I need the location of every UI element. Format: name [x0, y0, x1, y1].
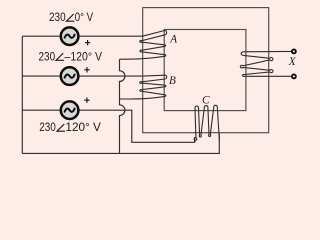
terminal X bottom — [292, 74, 296, 78]
svg-text:–120° V: –120° V — [65, 49, 103, 63]
ac source V3 — [61, 101, 79, 119]
wire phase 1 — [22, 35, 142, 37]
transformer core outer — [143, 8, 269, 133]
polarity plus V3 — [84, 98, 89, 103]
terminal X top — [292, 49, 296, 53]
winding C — [194, 105, 219, 142]
polarity plus V1 — [85, 40, 90, 45]
svg-text:X: X — [288, 56, 297, 68]
svg-text:B: B — [169, 75, 176, 87]
wire winding-A return with crossover hops — [120, 59, 125, 153]
ac source V1 — [61, 27, 79, 45]
polarity plus V2 — [84, 67, 89, 72]
winding A — [120, 30, 167, 59]
wire neutral bus — [21, 36, 23, 153]
svg-text:230: 230 — [49, 10, 66, 24]
transformer core inner — [164, 30, 246, 111]
wire bottom rail — [22, 134, 219, 154]
svg-text:0° V: 0° V — [75, 10, 93, 24]
svg-text:120° V: 120° V — [65, 120, 101, 134]
svg-text:230: 230 — [39, 49, 56, 63]
svg-text:230: 230 — [39, 120, 56, 134]
svg-text:C: C — [202, 94, 210, 106]
wire phase 2 — [22, 75, 142, 77]
svg-text:A: A — [169, 33, 177, 45]
ac source V2 — [61, 67, 79, 85]
winding B — [120, 75, 167, 99]
wire phase 3 — [22, 110, 194, 142]
secondary winding X — [240, 51, 291, 76]
